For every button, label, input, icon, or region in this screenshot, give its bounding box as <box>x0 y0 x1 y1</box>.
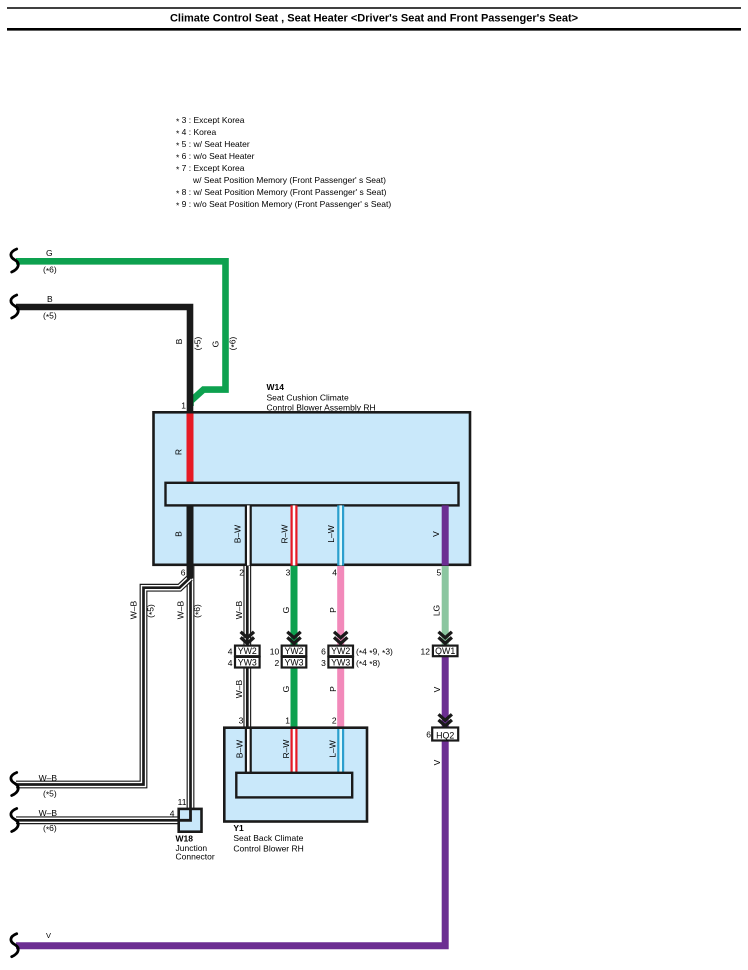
svg-text:YW3: YW3 <box>284 657 303 667</box>
svg-text:(*​6): (*​6) <box>192 604 203 618</box>
svg-text:3: 3 <box>239 716 244 726</box>
svg-text:W–B: W–B <box>39 773 58 783</box>
svg-text:R–W: R–W <box>280 525 290 544</box>
svg-text:W–B: W–B <box>129 600 139 619</box>
svg-text:(*​4 *​9, *​3): (*​4 *​9, *​3) <box>356 647 393 658</box>
svg-text:4: 4 <box>170 809 175 819</box>
svg-text:11: 11 <box>178 797 187 807</box>
wire G from W14 pin3 to Y1 pin1 <box>291 566 298 729</box>
svg-text:*​ 5 : w/ Seat Heater: *​ 5 : w/ Seat Heater <box>176 139 250 150</box>
wire P from W14 pin4 to Y1 pin2 <box>337 566 344 729</box>
junction connector W18 <box>179 809 202 832</box>
wire W-B (*6) from W14 pin6 to W18 pin11 <box>187 566 195 809</box>
svg-text:(*​5): (*​5) <box>43 311 57 322</box>
wire V from HQ2 to harness <box>16 741 445 946</box>
svg-text:(*​5): (*​5) <box>193 336 204 350</box>
svg-text:*​ 6 : w/o Seat Heater: *​ 6 : w/o Seat Heater <box>176 151 255 162</box>
svg-text:4: 4 <box>228 647 233 657</box>
svg-text:B: B <box>174 338 184 344</box>
svg-text:6: 6 <box>321 647 326 657</box>
svg-text:(*​5): (*​5) <box>146 604 157 618</box>
svg-text:6: 6 <box>426 730 431 740</box>
svg-text:B–W: B–W <box>235 740 245 758</box>
connector YW2 col1 <box>235 646 260 657</box>
connector block W14 Seat Cushion Climate Control Blower Assembly RH <box>154 412 471 565</box>
wire B-W inside Y1 <box>245 729 252 774</box>
svg-text:LG: LG <box>432 605 442 616</box>
wire W-B from W14 pin2 to Y1 pin3 <box>243 566 251 729</box>
svg-text:W–B: W–B <box>234 679 244 698</box>
svg-text:YW3: YW3 <box>238 657 257 667</box>
svg-text:W–B: W–B <box>234 600 244 619</box>
wire G from harness to W14 pin 1 <box>16 261 226 406</box>
wire R-W inside Y1 <box>291 729 298 774</box>
svg-text:W18: W18 <box>176 834 194 844</box>
svg-text:(*​6): (*​6) <box>43 823 57 834</box>
svg-text:W14: W14 <box>267 382 285 392</box>
svg-text:4: 4 <box>228 658 233 668</box>
Y1 internal connector bar <box>236 773 352 798</box>
black pin 6 stub <box>187 562 194 579</box>
wire LG from W14 pin5 to QW1 <box>442 566 449 646</box>
wire B inside W14 <box>187 505 194 565</box>
wire V from QW1 to HQ2 <box>442 656 449 728</box>
svg-text:Seat Cushion Climate: Seat Cushion Climate <box>267 392 349 402</box>
connector YW2 col2 <box>282 646 307 657</box>
connector QW1 <box>433 646 458 657</box>
svg-text:2: 2 <box>274 658 279 668</box>
svg-text:G: G <box>46 248 53 258</box>
svg-text:w/ Seat Position Memory (Front: w/ Seat Position Memory (Front Passenger… <box>192 175 386 185</box>
connector arrows col3 <box>334 632 347 646</box>
wire R-W inside W14 <box>291 505 298 565</box>
wire W-B (*6) from W18 pin4 to harness <box>16 816 178 824</box>
wire break symbol V wire <box>11 934 18 957</box>
wire B-W inside W14 <box>245 505 252 565</box>
wire break symbol W-B *5 wire <box>11 773 18 796</box>
wire break symbol W-B *6 wire <box>11 809 18 832</box>
title bottom rule <box>7 28 741 31</box>
svg-text:L–W: L–W <box>328 740 338 757</box>
svg-text:P: P <box>328 686 338 692</box>
svg-text:6: 6 <box>181 568 186 578</box>
svg-text:*​ 8 : w/ Seat Position Memory: *​ 8 : w/ Seat Position Memory (Front Pa… <box>176 187 387 198</box>
svg-text:*​ 7 : Except Korea: *​ 7 : Except Korea <box>176 163 245 174</box>
wire L-W inside Y1 <box>337 729 344 774</box>
svg-text:V: V <box>431 531 441 537</box>
svg-text:Seat Back Climate: Seat Back Climate <box>233 833 303 843</box>
svg-text:YW2: YW2 <box>238 646 257 656</box>
svg-text:Climate Control Seat , Seat He: Climate Control Seat , Seat Heater <Driv… <box>170 13 578 25</box>
svg-text:P: P <box>328 607 338 613</box>
svg-text:1: 1 <box>285 716 290 726</box>
wire L-W inside W14 <box>337 505 344 565</box>
svg-text:3: 3 <box>286 568 291 578</box>
svg-text:2: 2 <box>332 716 337 726</box>
wire B from harness to W14 pin 1 <box>16 307 190 414</box>
svg-text:10: 10 <box>270 647 280 657</box>
connector arrows col2 <box>287 632 300 646</box>
connector YW2 col3 <box>328 646 353 657</box>
svg-text:QW1: QW1 <box>435 646 455 656</box>
svg-text:R: R <box>174 449 184 455</box>
svg-text:(*​6): (*​6) <box>43 265 57 276</box>
svg-text:3: 3 <box>321 658 326 668</box>
connector arrows col1 <box>241 632 254 646</box>
wire V inside W14 <box>442 505 449 565</box>
connector arrows col4 <box>439 632 452 646</box>
svg-text:YW2: YW2 <box>284 646 303 656</box>
svg-text:(*​6): (*​6) <box>228 336 239 350</box>
svg-text:5: 5 <box>436 568 441 578</box>
svg-text:W–B: W–B <box>39 808 58 818</box>
svg-text:Control Blower Assembly RH: Control Blower Assembly RH <box>267 403 376 413</box>
svg-text:B: B <box>174 531 184 537</box>
connector YW3 col3 <box>328 657 353 668</box>
wire break symbol G wire <box>11 249 18 272</box>
svg-text:B–W: B–W <box>233 525 243 543</box>
svg-text:*​ 3 : Except Korea: *​ 3 : Except Korea <box>176 115 245 126</box>
svg-text:(*​5): (*​5) <box>43 788 57 799</box>
W18 internal joint <box>179 809 191 820</box>
svg-text:Control Blower RH: Control Blower RH <box>233 843 303 853</box>
W14 internal connector bar <box>166 483 459 506</box>
svg-text:V: V <box>46 931 51 940</box>
svg-text:HQ2: HQ2 <box>436 730 454 740</box>
connector arrows HQ2 <box>439 714 452 727</box>
svg-text:V: V <box>432 686 442 692</box>
svg-text:(*​4 *​8): (*​4 *​8) <box>356 658 380 669</box>
wire break symbol B wire <box>11 295 18 318</box>
title top rule <box>7 7 741 9</box>
svg-text:Y1: Y1 <box>233 823 244 833</box>
svg-text:G: G <box>281 686 291 693</box>
svg-text:Connector: Connector <box>176 852 215 862</box>
svg-text:V: V <box>432 759 442 765</box>
wire W-B (*5) from W14 pin6 to harness <box>16 578 190 785</box>
connector block Y1 Seat Back Climate Control Blower RH <box>224 728 367 822</box>
connector YW3 col1 <box>235 657 260 668</box>
svg-text:W–B: W–B <box>176 600 186 619</box>
svg-text:B: B <box>47 294 53 304</box>
wire R inside W14 <box>187 414 194 485</box>
svg-text:4: 4 <box>332 568 337 578</box>
svg-text:1: 1 <box>181 401 186 411</box>
svg-text:R–W: R–W <box>281 740 291 759</box>
svg-text:L–W: L–W <box>326 525 336 542</box>
svg-text:YW2: YW2 <box>331 646 350 656</box>
svg-text:G: G <box>211 341 221 348</box>
connector YW3 col2 <box>282 657 307 668</box>
connector HQ2 <box>432 728 458 741</box>
svg-text:*​ 4 : Korea: *​ 4 : Korea <box>176 127 216 138</box>
svg-text:12: 12 <box>421 647 431 657</box>
svg-text:*​ 9 : w/o Seat Position Memor: *​ 9 : w/o Seat Position Memory (Front P… <box>176 199 391 210</box>
svg-text:YW3: YW3 <box>331 657 350 667</box>
svg-text:G: G <box>281 607 291 614</box>
